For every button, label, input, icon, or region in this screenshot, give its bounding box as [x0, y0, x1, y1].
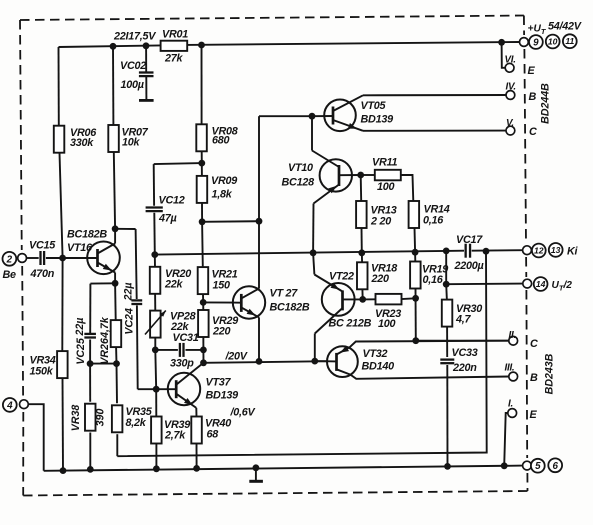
- junction VP28-VC31 node: [152, 347, 159, 354]
- svg-text:4,7k: 4,7k: [99, 316, 111, 339]
- svg-text:VT10: VT10: [288, 162, 313, 174]
- svg-text:V.: V.: [506, 118, 514, 129]
- svg-text:B: B: [530, 372, 538, 384]
- wire VR29 to 20V node: [202, 350, 204, 363]
- label III.: [505, 363, 515, 374]
- svg-text:VT22: VT22: [329, 271, 354, 283]
- junction VR34 bottom: [60, 467, 67, 474]
- label VT05: [361, 100, 387, 112]
- svg-text:Ki: Ki: [567, 246, 579, 258]
- resistor VR08: [196, 124, 207, 151]
- label I.: [508, 399, 513, 410]
- wire VC15-base: [46, 257, 63, 259]
- wire Ki output rail: [155, 251, 446, 255]
- svg-text:470n: 470n: [30, 268, 55, 280]
- svg-text:220n: 220n: [452, 362, 477, 374]
- value 100 of VR11: [377, 181, 395, 193]
- svg-text:IV.: IV.: [506, 82, 516, 93]
- svg-text:BC182B: BC182B: [270, 302, 310, 314]
- terminal circled 4: [3, 398, 17, 412]
- junction VR14-VR19 node: [412, 249, 419, 256]
- wire VT16 collector to VC24: [115, 229, 156, 389]
- svg-text:BD139: BD139: [361, 114, 394, 126]
- transistor VT37: [156, 363, 203, 417]
- svg-text:150k: 150k: [30, 366, 54, 378]
- wire VC12 branch: [154, 164, 155, 255]
- svg-text:/20V: /20V: [225, 351, 248, 363]
- label node /20V: [225, 351, 248, 363]
- wire VT16 emitter to VC25: [90, 283, 115, 333]
- label VC33: [452, 347, 478, 359]
- value 2,7k: [164, 430, 186, 442]
- label VR07: [122, 127, 149, 139]
- wire VR34 branch: [61, 258, 64, 471]
- resistor VR09: [197, 176, 208, 203]
- junction II-C line node: [412, 337, 419, 344]
- label VR11: [372, 157, 397, 169]
- svg-text:54/42V: 54/42V: [548, 21, 582, 33]
- resistor VR38: [85, 404, 96, 431]
- label IV.: [506, 82, 516, 93]
- label VT22: [329, 271, 354, 283]
- svg-text:68: 68: [207, 429, 219, 441]
- wire VR11 left stub: [361, 174, 375, 176]
- label VR09: [211, 175, 237, 187]
- label VR14: [424, 204, 450, 216]
- terminal circled 13: [549, 243, 563, 257]
- wire +UT top supply rail: [59, 42, 520, 47]
- ground bar VC02 negative terminal: [139, 99, 154, 102]
- svg-text:27k: 27k: [164, 53, 184, 65]
- wire VR09 to VT27 collector link: [202, 220, 259, 223]
- dashed enclosure border: [20, 16, 528, 496]
- label node 22/17,5V: [113, 31, 156, 43]
- junction VR18 bottom node: [359, 296, 366, 303]
- junction VR09-VT27 link node: [256, 218, 263, 225]
- svg-text:VC31: VC31: [173, 332, 199, 344]
- label BD139 of VT05: [361, 114, 394, 126]
- label BD139 of VT37: [206, 390, 239, 402]
- svg-text:VC33: VC33: [452, 347, 478, 359]
- label BD243B rotated: [543, 353, 555, 394]
- svg-text:47µ: 47µ: [158, 213, 177, 225]
- label VR30: [456, 303, 482, 315]
- svg-text:220: 220: [371, 273, 390, 285]
- terminal circled 14: [534, 277, 548, 291]
- terminal circled 2: [2, 252, 16, 266]
- value 10k: [122, 137, 141, 149]
- capacitor VC12: [146, 208, 163, 212]
- wire VR39 branch: [155, 389, 157, 469]
- capacitor VC17: [466, 244, 470, 258]
- value 2200µ: [454, 260, 484, 272]
- resistor VR20: [150, 267, 161, 294]
- wire VR08 branch: [201, 45, 203, 163]
- label BC182B of VT16: [67, 229, 107, 241]
- terminal pin 14 open circle: [523, 279, 532, 288]
- label V.: [506, 118, 514, 129]
- junction VT10 emitter node: [357, 172, 364, 179]
- svg-text:8,2k: 8,2k: [126, 417, 147, 429]
- svg-text:VT37: VT37: [206, 377, 232, 389]
- svg-text:VR09: VR09: [211, 175, 237, 187]
- terminal VI open circle: [505, 63, 514, 72]
- junction VT27 emitter node: [256, 358, 263, 365]
- svg-text:22k: 22k: [164, 279, 184, 291]
- capacitor VC24: [131, 300, 142, 304]
- junction VR30 top node: [443, 248, 450, 255]
- svg-text:100: 100: [378, 318, 396, 330]
- value 1,8k: [212, 189, 233, 201]
- wire VR35 to VC17 output link: [117, 251, 486, 456]
- terminal II open circle: [509, 336, 518, 345]
- label BD140: [362, 361, 395, 373]
- label II.: [509, 330, 516, 341]
- label VR08: [212, 126, 238, 138]
- label VT16: [67, 242, 93, 254]
- svg-text:C: C: [530, 338, 538, 350]
- junction VC12-VR20 node: [151, 251, 158, 258]
- junction VC25 bottom node: [87, 360, 94, 367]
- value 330k: [70, 137, 94, 149]
- svg-text:E: E: [530, 409, 538, 421]
- resistor VR40: [191, 417, 202, 444]
- junction 20V node left: [200, 359, 207, 366]
- resistor VR34: [57, 351, 68, 378]
- svg-text:VT32: VT32: [363, 348, 388, 360]
- terminal circled 5: [531, 459, 545, 473]
- label VR34: [30, 355, 56, 367]
- label B of BD244B: [529, 91, 537, 103]
- junction VR23 right node: [412, 295, 419, 302]
- svg-text:13: 13: [551, 245, 561, 255]
- junction VT05 base node: [309, 113, 316, 120]
- junction VR39 bottom: [153, 465, 160, 472]
- value 390 rotated: [94, 409, 106, 427]
- svg-text:330k: 330k: [70, 137, 94, 149]
- junction VT22 emitter node: [310, 249, 317, 256]
- wire VR23 left stub: [363, 298, 376, 300]
- label VR35: [126, 406, 153, 418]
- junction I-E stub bottom: [501, 462, 508, 469]
- value 0,16 of VR19: [423, 274, 444, 286]
- svg-text:12: 12: [534, 245, 544, 255]
- label VI.: [505, 55, 516, 66]
- wire input: [26, 257, 39, 259]
- value 100µ: [121, 79, 144, 91]
- junction VR09 bottom node: [199, 218, 206, 225]
- svg-text:I.: I.: [508, 399, 513, 410]
- wire VR30 branch: [445, 251, 447, 284]
- value 22k of VR20: [164, 279, 184, 291]
- terminal pin 12 13 open circle: [523, 246, 532, 255]
- svg-text:VC17: VC17: [456, 234, 483, 246]
- label E of BD244B: [528, 65, 536, 77]
- terminal pin 4 open circle: [20, 400, 29, 409]
- svg-text:4: 4: [6, 400, 13, 411]
- wire VT05 base net: [259, 116, 312, 221]
- transistor VT10: [313, 159, 361, 253]
- svg-text:/0,6V: /0,6V: [230, 407, 256, 419]
- svg-text:1,8k: 1,8k: [212, 189, 233, 201]
- svg-text:680: 680: [212, 135, 230, 147]
- svg-text:330p: 330p: [170, 358, 194, 370]
- svg-text:22µ: 22µ: [74, 318, 86, 337]
- wire bottom rail: [44, 466, 523, 471]
- terminal V open circle: [506, 126, 515, 135]
- wire VR35 branch: [116, 364, 119, 457]
- label node /0,6V: [230, 407, 256, 419]
- wire VR23 right stub: [401, 297, 415, 300]
- transistor VT05: [312, 95, 506, 131]
- svg-text:14: 14: [536, 279, 546, 289]
- resistor VR06: [54, 126, 65, 153]
- value 47µ: [158, 213, 177, 225]
- svg-text:0,16: 0,16: [423, 274, 444, 286]
- capacitor VC02: [139, 73, 154, 77]
- value 220 of VR18: [371, 273, 390, 285]
- terminal circled 11: [563, 34, 577, 48]
- junction VR08 bottom node: [198, 160, 205, 167]
- svg-text:9: 9: [533, 38, 539, 49]
- label BC212B: [329, 318, 372, 330]
- wire VR06 branch: [59, 47, 63, 258]
- wire VR29 branch: [202, 302, 204, 350]
- value 22µ rotated: [123, 282, 135, 301]
- label VT32: [363, 348, 388, 360]
- svg-text:VR11: VR11: [372, 157, 397, 169]
- svg-text:5: 5: [535, 461, 541, 472]
- wire VR21 branch: [202, 222, 203, 303]
- junction VT16 emitter node: [112, 280, 119, 287]
- resistor VR13: [356, 201, 367, 228]
- svg-text:VC15: VC15: [29, 240, 56, 252]
- label E of BD243B: [530, 409, 538, 421]
- svg-text:B: B: [529, 91, 537, 103]
- resistor VR01: [161, 41, 188, 51]
- junction VC17 right node: [483, 248, 490, 255]
- wire VR07 branch: [113, 46, 115, 229]
- wire VR38 branch: [89, 364, 91, 470]
- label VR40: [205, 418, 231, 430]
- svg-text:100: 100: [377, 181, 395, 193]
- svg-text:C: C: [529, 126, 537, 138]
- svg-text:BC 212B: BC 212B: [329, 318, 372, 330]
- value 220n: [452, 362, 477, 374]
- label VC25 rotated: [75, 337, 87, 365]
- transistor VT32: [315, 341, 509, 379]
- svg-text:22I17,5V: 22I17,5V: [113, 31, 156, 43]
- terminal pin 2 open circle: [18, 254, 27, 263]
- label VR38 rotated: [70, 405, 82, 432]
- svg-text:VR01: VR01: [162, 29, 188, 41]
- wire VC31 left stub: [155, 349, 178, 351]
- label VR01: [162, 29, 188, 41]
- wire VC25 bottom: [89, 340, 91, 364]
- terminal I open circle: [508, 409, 517, 418]
- resistor VR26: [111, 320, 122, 347]
- label +UT: [528, 24, 547, 37]
- label VR06: [70, 127, 97, 139]
- transistor VT27: [233, 221, 266, 361]
- label Be: [3, 269, 17, 281]
- capacitor VC33: [440, 360, 454, 364]
- svg-text:III.: III.: [505, 363, 515, 374]
- terminal circled 12: [532, 244, 546, 258]
- svg-text:10: 10: [548, 36, 558, 46]
- junction VT37 base node: [153, 386, 160, 393]
- svg-text:BD140: BD140: [362, 361, 395, 373]
- potentiometer VP28: [145, 311, 166, 338]
- wire VI stub: [502, 42, 506, 68]
- junction VR08 top: [198, 42, 205, 49]
- value 470n: [30, 268, 55, 280]
- wire terminal 4 feed: [28, 404, 44, 471]
- label 54/42V: [548, 21, 582, 33]
- value 220 of VR13: [370, 216, 391, 228]
- svg-text:VC25: VC25: [75, 337, 87, 365]
- resistor VR39: [151, 417, 162, 444]
- label B of BD243B: [530, 372, 538, 384]
- junction VT32 base node: [311, 358, 318, 365]
- svg-text:11: 11: [565, 36, 574, 46]
- capacitor VC25: [84, 334, 96, 338]
- transistor VT22: [313, 253, 363, 361]
- resistor VR21: [198, 267, 209, 294]
- wire VR08-VC12 link: [154, 163, 202, 164]
- value 27k: [164, 53, 184, 65]
- svg-text:390: 390: [94, 409, 106, 427]
- junction VR13-VR18 node: [358, 249, 365, 256]
- label VR39: [164, 419, 190, 431]
- svg-text:2,7k: 2,7k: [164, 430, 186, 442]
- label VR19: [422, 264, 448, 276]
- label VC02: [120, 60, 146, 72]
- svg-text:2 20: 2 20: [370, 216, 391, 228]
- terminal IV open circle: [506, 91, 515, 100]
- svg-text:VC12: VC12: [159, 195, 185, 207]
- svg-text:2200µ: 2200µ: [454, 260, 484, 272]
- svg-text:VC02: VC02: [120, 60, 146, 72]
- wire VR18 branch: [361, 253, 364, 300]
- junction VT16 collector node: [112, 225, 119, 232]
- label VR26 rotated: [99, 338, 111, 365]
- wire VC31 right stub: [186, 349, 204, 351]
- wire VR40 bottom: [196, 443, 198, 469]
- label BC182B of VT27: [270, 302, 310, 314]
- wire VR14 branch: [413, 201, 415, 252]
- junction VR38 bottom: [87, 466, 94, 473]
- svg-text:BD139: BD139: [206, 390, 239, 402]
- resistor VR29: [198, 310, 209, 337]
- wire 20V line: [204, 361, 329, 363]
- label VR18: [371, 263, 397, 275]
- label BD244B rotated: [539, 83, 551, 124]
- svg-text:VI.: VI.: [505, 55, 516, 66]
- value 8,2k: [126, 417, 147, 429]
- label C of BD243B: [530, 338, 538, 350]
- svg-text:VT05: VT05: [361, 100, 387, 112]
- terminal circled 9: [529, 35, 543, 49]
- wire VT10 base net: [312, 116, 339, 167]
- label VT10: [288, 162, 313, 174]
- wire I-E stub: [504, 413, 508, 466]
- wire VT27 base link: [203, 301, 232, 303]
- junction VR21 bottom node: [200, 299, 207, 306]
- svg-text:0,16: 0,16: [423, 215, 444, 227]
- resistor VR07: [108, 125, 119, 152]
- svg-text:VC24: VC24: [123, 308, 135, 335]
- value 150k: [30, 366, 54, 378]
- value 22µ of VC25 rotated: [74, 318, 86, 337]
- label C of BD244B: [529, 126, 537, 138]
- svg-text:VT 27: VT 27: [270, 288, 299, 300]
- terminal circled 10: [546, 35, 560, 49]
- wire UT2 line: [446, 283, 523, 286]
- junction VR40 bottom: [193, 465, 200, 472]
- wire VR30 stub: [446, 284, 447, 357]
- terminal pin 9 open circle: [520, 38, 529, 47]
- svg-text:BC182B: BC182B: [67, 229, 107, 241]
- label VC24 rotated: [123, 308, 135, 335]
- label VR23: [375, 308, 401, 320]
- value 4,7: [455, 314, 472, 326]
- label VC15: [29, 240, 56, 252]
- wire VC17 right to Ki terminal: [472, 249, 523, 252]
- junction VR30-UT2 node: [443, 281, 450, 288]
- svg-text:10k: 10k: [122, 137, 141, 149]
- junction VR29 bottom node: [200, 347, 207, 354]
- wire VR13 branch: [361, 175, 362, 253]
- value 220 of VR29: [212, 326, 231, 338]
- svg-text:VT16: VT16: [67, 242, 93, 254]
- svg-text:6: 6: [552, 461, 558, 472]
- svg-text:4,7: 4,7: [455, 314, 472, 326]
- wire VR20 branch: [154, 255, 157, 312]
- resistor VR19: [410, 262, 421, 289]
- terminal circled 6: [548, 458, 562, 472]
- junction VR26 bottom node: [113, 360, 120, 367]
- wire VC17 left stub: [446, 250, 464, 252]
- resistor VR11: [375, 170, 401, 181]
- resistor VR23: [376, 294, 402, 305]
- svg-text:VR26: VR26: [99, 338, 111, 365]
- junction VC33 bottom: [444, 463, 451, 470]
- label VR20: [165, 268, 191, 280]
- value 150: [213, 280, 231, 292]
- wire VC02 stub: [145, 46, 147, 100]
- svg-text:22µ: 22µ: [123, 282, 135, 301]
- label VC12: [159, 195, 185, 207]
- transistor VT16: [63, 229, 120, 283]
- label UT/2: [552, 280, 573, 293]
- svg-text:2: 2: [6, 254, 13, 265]
- svg-text:E: E: [528, 65, 536, 77]
- resistor VR35: [112, 405, 123, 432]
- svg-text:150: 150: [213, 280, 231, 292]
- label VP28: [170, 311, 196, 323]
- junction VI stub on rail: [498, 39, 505, 46]
- value 22k of VP28: [170, 321, 190, 333]
- label VR29: [212, 315, 238, 327]
- capacitor VC31: [180, 343, 184, 357]
- label VC17: [456, 234, 483, 246]
- value 4,7k rotated: [99, 316, 111, 339]
- wire VR11 right elbow: [401, 175, 413, 201]
- resistor VR30: [442, 300, 453, 327]
- wire II-C line right: [416, 340, 509, 342]
- label VC31: [173, 332, 199, 344]
